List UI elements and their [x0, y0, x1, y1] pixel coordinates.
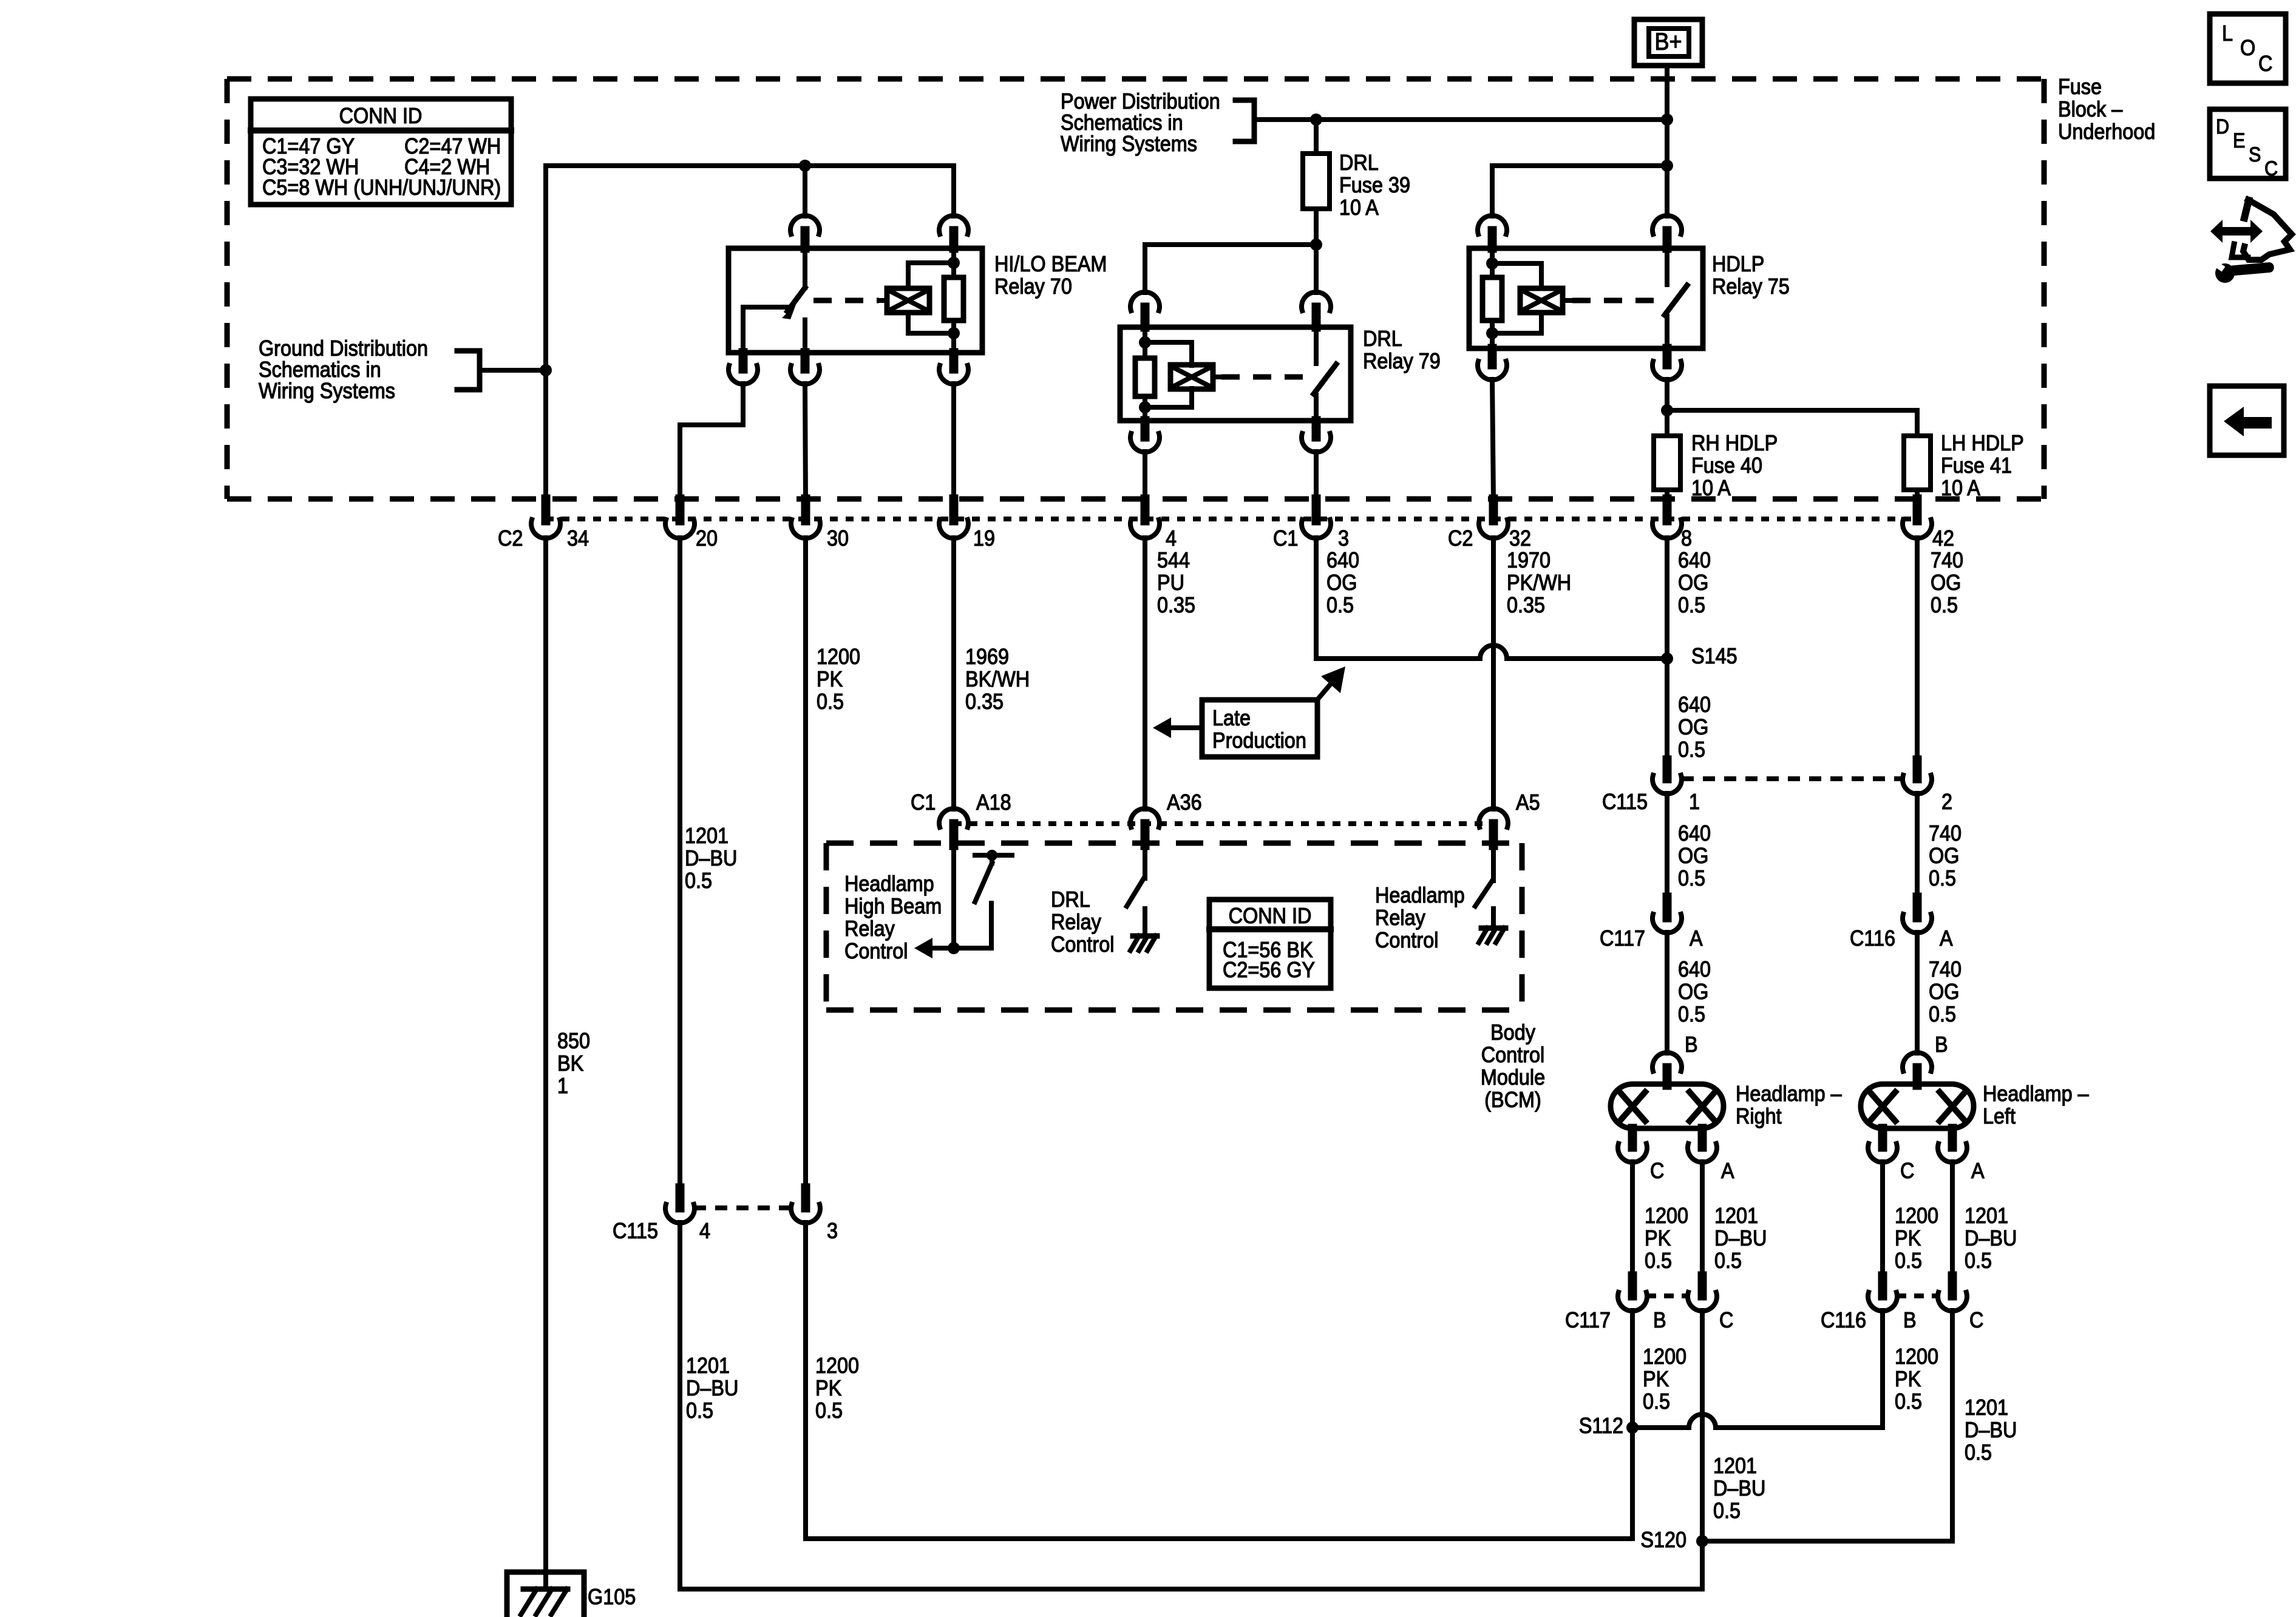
svg-text:1200: 1200: [815, 1354, 859, 1378]
svg-text:1: 1: [1689, 790, 1700, 814]
connector row: BCM (dotted line): [954, 821, 1493, 826]
relay 70 coil winding: [813, 263, 954, 333]
wire: 544 PU from pin 4 to BCM A36: [1143, 538, 1147, 809]
svg-text:42: 42: [1932, 526, 1954, 551]
svg-text:Ground Distribution: Ground Distribution: [259, 336, 428, 361]
svg-text:C115: C115: [1602, 790, 1648, 814]
label: 740 OG 0.5 (C116-A): [1929, 957, 1961, 1026]
wire: fuse 41 output to pin 42: [1915, 490, 1920, 499]
connector: fuse block pin 19: [939, 499, 995, 551]
label: 1200 PK 0.5 (right C): [1645, 1204, 1688, 1273]
svg-text:0.5: 0.5: [685, 869, 712, 893]
icon: back button: [2210, 386, 2284, 455]
label: 1200 PK 0.5 (pin 30): [817, 645, 860, 714]
fuse F39 (DRL Fuse 39): [1303, 154, 1330, 209]
svg-text:O: O: [2240, 36, 2255, 60]
svg-text:B: B: [1685, 1032, 1698, 1057]
svg-text:OG: OG: [1929, 844, 1959, 868]
svg-text:Left: Left: [1983, 1104, 2016, 1128]
connector C115-1: [1602, 760, 1700, 814]
svg-text:Body: Body: [1490, 1020, 1536, 1045]
wire: 740 OG C116-A to headlamp left B: [1915, 932, 1920, 1053]
hop: 640 OG crosses 1970 PK/WH: [1480, 645, 1507, 659]
node S112: [1579, 1414, 1639, 1438]
wire: fuse 39 feed: [1314, 120, 1319, 154]
svg-text:0.5: 0.5: [1678, 1002, 1705, 1026]
svg-text:A36: A36: [1167, 790, 1202, 815]
label: Ground Distribution Schematics in Wiring Systems: [259, 336, 428, 403]
svg-text:740: 740: [1931, 548, 1963, 572]
label: 544 PU 0.35: [1157, 548, 1195, 617]
svg-text:PK: PK: [815, 1376, 841, 1400]
svg-text:Relay: Relay: [1375, 906, 1426, 930]
wire: 850 BK from pin 34 to G105: [543, 538, 548, 1572]
svg-text:Relay 79: Relay 79: [1363, 349, 1441, 373]
node: junction power rail / B+ drop: [1661, 114, 1673, 126]
svg-text:OG: OG: [1678, 571, 1708, 595]
connector pin: relay 70 NO contact (bottom center): [790, 353, 820, 384]
label: DRL Fuse 39 10 A: [1339, 151, 1410, 220]
wire: 1200 PK C117-B to S112: [1630, 1310, 1635, 1428]
svg-text:CONN ID: CONN ID: [1229, 904, 1312, 928]
svg-text:0.5: 0.5: [1326, 593, 1354, 617]
svg-text:Control: Control: [1375, 928, 1438, 952]
wire: 1200 PK C115-3 to S112: [806, 1222, 1632, 1539]
connector pin: relay 70 coil feed (top): [939, 215, 968, 248]
label: Headlamp - Right: [1736, 1082, 1843, 1128]
svg-text:PK: PK: [1645, 1226, 1671, 1250]
BCM high beam relay control driver (A18 switch): [914, 846, 1012, 958]
wire: 640 OG C115-1 to C117-A: [1665, 793, 1669, 897]
svg-text:3: 3: [827, 1219, 838, 1243]
label: RH HDLP Fuse 40 10 A: [1691, 431, 1778, 500]
connector pin: relay 75 switch out (bottom right): [1652, 348, 1682, 380]
label: Fuse Block - Underhood: [2058, 75, 2155, 144]
svg-text:0.5: 0.5: [1714, 1249, 1742, 1273]
svg-text:0.5: 0.5: [1713, 1499, 1741, 1523]
connector C117-C: [1688, 1276, 1733, 1332]
svg-text:2: 2: [1941, 790, 1952, 814]
wire: 1200 PK headlamp left C to C116-B: [1880, 1162, 1885, 1276]
svg-text:BK: BK: [557, 1051, 583, 1076]
hop: S112 link crosses 1201 D-BU: [1689, 1414, 1716, 1428]
svg-text:0.35: 0.35: [1507, 593, 1545, 617]
label: LH HDLP Fuse 41 10 A: [1941, 431, 2024, 500]
label: 640 OG 0.5 (C117-A): [1678, 957, 1711, 1026]
svg-text:C116: C116: [1821, 1308, 1866, 1332]
bracket: ground distribution tie to 850 BK wire: [457, 351, 546, 390]
svg-text:0.5: 0.5: [1895, 1389, 1922, 1414]
connector C116-B: [1821, 1276, 1917, 1332]
svg-text:A: A: [1690, 926, 1703, 951]
wire: 640 OG C117-A to headlamp right B: [1665, 932, 1669, 1053]
relay 75 switch: [1665, 248, 1687, 348]
connector pin: relay 79 coil feed (top): [1130, 292, 1160, 327]
svg-text:19: 19: [973, 526, 995, 551]
svg-text:0.5: 0.5: [1929, 866, 1956, 890]
svg-text:C2: C2: [1448, 526, 1473, 551]
svg-text:C2=56 GY: C2=56 GY: [1223, 958, 1315, 982]
svg-text:DRL: DRL: [1339, 151, 1379, 175]
connector C115 pins 1-2 (dashed pair): [1682, 776, 1903, 781]
connector C116 pins B-C (dashed pair): [1897, 1293, 1938, 1298]
svg-text:Fuse 40: Fuse 40: [1691, 453, 1762, 478]
svg-text:S120: S120: [1640, 1528, 1686, 1552]
svg-text:1969: 1969: [965, 645, 1009, 669]
wire: 640 OG from S145 to C115-1: [1665, 659, 1669, 764]
label: Body Control Module (BCM): [1481, 1020, 1545, 1112]
connector: fuse block pin 4: [1130, 499, 1177, 551]
svg-text:C117: C117: [1600, 926, 1645, 951]
svg-text:Schematics in: Schematics in: [1061, 110, 1183, 135]
svg-text:C2: C2: [498, 526, 523, 551]
svg-text:1201: 1201: [1965, 1395, 2008, 1420]
svg-text:D–BU: D–BU: [685, 846, 737, 870]
label: 1200 PK 0.5 (C117-B): [1643, 1344, 1686, 1414]
svg-text:Fuse 41: Fuse 41: [1941, 453, 2012, 478]
svg-text:Block –: Block –: [2058, 97, 2123, 121]
connector A5 (BCM): [1479, 790, 1540, 846]
svg-text:544: 544: [1157, 548, 1190, 572]
connector C116-A: [1850, 897, 1953, 951]
label: DRL Relay Control: [1051, 887, 1114, 957]
wire: relay 70 coil low to pin 19: [951, 384, 956, 499]
svg-text:0.5: 0.5: [1678, 593, 1705, 617]
svg-text:1201: 1201: [1713, 1454, 1757, 1478]
B+ battery feed symbol: [1634, 19, 1702, 66]
svg-text:C1: C1: [911, 790, 936, 815]
label: 640 OG 0.5 (pin 3): [1326, 548, 1359, 617]
svg-text:1201: 1201: [1714, 1204, 1758, 1228]
BCM DRL relay control driver (A36 switch): [1127, 846, 1145, 936]
svg-text:S: S: [2249, 143, 2261, 166]
svg-text:20: 20: [696, 526, 718, 551]
svg-text:OG: OG: [1326, 571, 1357, 595]
connector C116-C: [1938, 1276, 1983, 1332]
wire: 1201 D-BU headlamp left A to C116-C: [1950, 1162, 1955, 1276]
node: junction B+ drop / relay 75 coil branch: [1661, 160, 1673, 172]
wire: rail from 850 BK wire to relay 70 pins: [546, 166, 954, 216]
svg-text:0.5: 0.5: [1965, 1440, 1992, 1465]
svg-text:PK: PK: [1643, 1367, 1669, 1391]
icon: vehicle diagnostic (arrow, car, wrench): [2210, 200, 2292, 283]
svg-text:DRL: DRL: [1363, 327, 1402, 351]
svg-text:Fuse: Fuse: [2058, 75, 2102, 99]
svg-text:PK/WH: PK/WH: [1507, 571, 1571, 595]
wire: branch to LH HDLP fuse 41: [1667, 410, 1917, 436]
svg-text:OG: OG: [1678, 715, 1708, 739]
svg-text:E: E: [2233, 129, 2245, 152]
label: Headlamp - Left: [1983, 1082, 2090, 1128]
connector pin A (headlamp right): [1688, 1128, 1734, 1183]
svg-text:Headlamp: Headlamp: [844, 872, 934, 896]
wire: 640 OG from pin 8 to S145: [1665, 538, 1669, 659]
wire: branch to relay 75 coil: [1492, 166, 1667, 216]
headlamp right (bulbs): [1611, 1084, 1724, 1128]
svg-text:740: 740: [1929, 821, 1961, 846]
wire: drop to relay 70 switch pin: [803, 166, 807, 216]
connector pin C (headlamp left): [1868, 1128, 1914, 1183]
svg-text:Late: Late: [1212, 706, 1251, 730]
svg-text:Headlamp –: Headlamp –: [1983, 1082, 2090, 1106]
svg-text:1201: 1201: [1965, 1204, 2008, 1228]
connector pin A (headlamp left): [1938, 1128, 1985, 1183]
svg-text:Relay 75: Relay 75: [1712, 274, 1790, 299]
svg-text:Wiring Systems: Wiring Systems: [1061, 132, 1197, 156]
svg-text:OG: OG: [1931, 571, 1961, 595]
svg-text:C5=8 WH (UNH/UNJ/UNR): C5=8 WH (UNH/UNJ/UNR): [262, 175, 501, 200]
svg-text:640: 640: [1326, 548, 1359, 572]
connector pin: relay 75 coil feed (top): [1478, 215, 1507, 248]
svg-text:C: C: [2264, 157, 2278, 180]
wire: fuse 39 output: [1314, 209, 1319, 293]
label: HDLP Relay 75: [1712, 252, 1790, 299]
fuse block - underhood (dashed outline): [227, 79, 2044, 499]
svg-text:0.5: 0.5: [817, 690, 844, 714]
chassis ground (A5 driver): [1479, 928, 1506, 943]
svg-text:0.5: 0.5: [1643, 1389, 1670, 1414]
connector: fuse block pin 8: [1652, 499, 1692, 551]
svg-text:1200: 1200: [1895, 1344, 1938, 1369]
chassis ground (A36 driver): [1130, 936, 1157, 951]
svg-text:740: 740: [1929, 957, 1961, 981]
node: junction fuse 39 output / relay 79 coil branch: [1310, 239, 1322, 251]
svg-text:OG: OG: [1678, 844, 1708, 868]
node: junction rail / relay 70 switch feed: [799, 160, 811, 172]
node: junction relay 75 output / LH fuse branch: [1661, 404, 1673, 416]
connector pin B (headlamp right): [1652, 1032, 1698, 1085]
wire: relay 70 NC contact jog to pin 20: [680, 384, 743, 499]
svg-text:B+: B+: [1654, 29, 1682, 55]
svg-text:8: 8: [1681, 526, 1692, 551]
svg-text:CONN ID: CONN ID: [339, 104, 423, 128]
svg-text:10 A: 10 A: [1941, 476, 1980, 500]
svg-text:Control: Control: [844, 939, 908, 963]
svg-text:0.5: 0.5: [1645, 1249, 1672, 1273]
connector: fuse block C2 pin 34: [498, 499, 589, 551]
svg-text:C116: C116: [1850, 926, 1895, 951]
BCM box (dashed): [826, 843, 1522, 1010]
svg-text:640: 640: [1678, 821, 1711, 846]
connector C115-4: [613, 1188, 710, 1243]
wire: 1201 D-BU headlamp right A to C117-C: [1700, 1162, 1705, 1276]
label: 1201 D-BU 0.5 (C115-4): [686, 1354, 738, 1423]
connector pin B (headlamp left): [1903, 1032, 1948, 1085]
wire: relay 79 switch out to pin 3: [1314, 452, 1319, 499]
svg-text:0.5: 0.5: [1929, 1002, 1956, 1026]
svg-text:Right: Right: [1736, 1104, 1782, 1128]
node: junction on 850 BK wire at ground distribution tap: [540, 364, 552, 376]
svg-text:OG: OG: [1929, 980, 1959, 1004]
svg-text:0.35: 0.35: [1157, 593, 1195, 617]
svg-text:C117: C117: [1565, 1308, 1611, 1332]
connector pin: relay 70 switch feed (top): [790, 215, 820, 248]
svg-text:D–BU: D–BU: [1714, 1226, 1767, 1250]
connector C1-A18 (BCM): [911, 790, 1011, 846]
label: 1201 D-BU 0.5 (C117-C): [1713, 1454, 1765, 1523]
svg-text:D–BU: D–BU: [1965, 1226, 2017, 1250]
headlamp left (bulbs): [1861, 1084, 1974, 1128]
wire: 740 OG from pin 42 to C115-2: [1915, 538, 1920, 764]
svg-text:D: D: [2216, 115, 2229, 138]
svg-text:C1: C1: [1273, 526, 1298, 551]
label: 740 OG 0.5 (C115-2): [1929, 821, 1961, 890]
svg-text:S145: S145: [1691, 644, 1737, 668]
svg-text:Power Distribution: Power Distribution: [1061, 89, 1220, 114]
label: 1200 PK 0.5 (C116-B): [1895, 1344, 1938, 1414]
wire: S120 to C116-C (1201 D-BU): [1702, 1310, 1952, 1541]
relay K75 box (HDLP Relay 75): [1469, 248, 1703, 348]
connector C115-3: [791, 1188, 838, 1243]
wire: 1201 D-BU C117-C to S120: [1700, 1310, 1705, 1541]
svg-text:Fuse 39: Fuse 39: [1339, 173, 1410, 197]
svg-text:1200: 1200: [817, 645, 860, 669]
wire: branch to relay 79 coil: [1145, 245, 1316, 293]
connector: fuse block C1 pin 3: [1273, 499, 1349, 551]
CONN ID table (BCM): [1209, 900, 1331, 988]
svg-text:1200: 1200: [1643, 1344, 1686, 1369]
svg-text:OG: OG: [1678, 980, 1708, 1004]
svg-text:(BCM): (BCM): [1484, 1088, 1541, 1112]
svg-text:B: B: [1903, 1308, 1917, 1332]
svg-text:Relay: Relay: [1051, 910, 1102, 934]
svg-text:1200: 1200: [1895, 1204, 1938, 1228]
wire: 640 OG from pin 3 to S145: [1316, 538, 1667, 659]
icon: LOC button: [2210, 14, 2286, 83]
svg-text:C: C: [1969, 1308, 1983, 1332]
svg-text:640: 640: [1678, 957, 1711, 981]
node S145: [1661, 644, 1737, 668]
svg-text:Module: Module: [1481, 1065, 1545, 1090]
svg-text:A: A: [1940, 926, 1953, 951]
label: 1970 PK/WH 0.35: [1507, 548, 1571, 617]
CONN ID table (fuse block connectors): [251, 99, 511, 205]
node S120: [1640, 1528, 1708, 1552]
svg-text:G105: G105: [588, 1585, 636, 1609]
svg-text:10 A: 10 A: [1339, 195, 1379, 220]
relay 79 coil winding: [1145, 342, 1305, 407]
label: Power Distribution Schematics in Wiring Systems: [1061, 89, 1220, 156]
svg-text:High Beam: High Beam: [844, 894, 942, 918]
svg-text:PK: PK: [1895, 1226, 1921, 1250]
label: 640 OG 0.5 (pin 8): [1678, 548, 1711, 617]
label: HI/LO BEAM Relay 70: [994, 252, 1107, 299]
label: 1200 PK 0.5 (left C): [1895, 1204, 1938, 1273]
relay 70 switch: [743, 248, 805, 353]
wire: 1969 BK/WH from pin 19 to BCM A18: [951, 538, 956, 809]
label: 1201 D-BU 0.5 (right A): [1714, 1204, 1767, 1273]
svg-text:PK: PK: [817, 667, 843, 691]
svg-text:850: 850: [557, 1029, 590, 1053]
ground G105: [507, 1572, 584, 1615]
svg-text:1201: 1201: [685, 824, 729, 848]
svg-text:Production: Production: [1212, 728, 1306, 753]
svg-text:HDLP: HDLP: [1712, 252, 1764, 276]
label: 1201 D-BU 0.5 (pin 20): [685, 824, 737, 893]
connector: fuse block pin 42: [1903, 499, 1954, 551]
svg-text:640: 640: [1678, 548, 1711, 572]
svg-text:0.5: 0.5: [686, 1398, 713, 1423]
fuse F41 (LH HDLP Fuse 41): [1904, 436, 1931, 490]
svg-text:C: C: [1900, 1159, 1914, 1183]
label: 640 OG 0.5 (C115-1): [1678, 821, 1711, 890]
connector: fuse block pin 30: [791, 499, 849, 551]
svg-text:PK: PK: [1895, 1367, 1921, 1391]
svg-text:RH HDLP: RH HDLP: [1691, 431, 1778, 455]
svg-text:1201: 1201: [686, 1354, 730, 1378]
svg-text:PU: PU: [1157, 571, 1184, 595]
svg-text:Headlamp –: Headlamp –: [1736, 1082, 1843, 1106]
svg-text:34: 34: [567, 526, 589, 551]
fuse F40 (RH HDLP Fuse 40): [1654, 436, 1680, 490]
svg-text:HI/LO BEAM: HI/LO BEAM: [994, 252, 1107, 276]
svg-text:0.5: 0.5: [1678, 866, 1705, 890]
svg-text:Relay: Relay: [844, 917, 895, 941]
wire: S112 to C116-B (1200 PK): [1632, 1310, 1883, 1428]
connector C117-A: [1600, 897, 1703, 951]
relay 75 coil resistor: [1483, 248, 1502, 348]
connector C117-B: [1565, 1276, 1666, 1332]
svg-text:30: 30: [827, 526, 849, 551]
connector pin: relay 79 coil low (bottom left): [1130, 421, 1160, 452]
wire: relay 75 switch out to headlamp fuses: [1665, 379, 1669, 436]
svg-text:640: 640: [1678, 693, 1711, 717]
svg-text:Relay 70: Relay 70: [994, 274, 1072, 299]
svg-text:D–BU: D–BU: [1713, 1476, 1765, 1500]
svg-text:0.5: 0.5: [1678, 737, 1705, 762]
wire: B+ drop to HDLP relay 75 switch: [1665, 66, 1669, 216]
wire: B+ power rail to fuse 39 and relay 75: [1254, 117, 1667, 122]
wire: 1200 PK headlamp right C to C117-B: [1630, 1162, 1635, 1276]
label: 1200 PK 0.5 (C115-3): [815, 1354, 859, 1423]
bracket: power distribution feed: [1235, 100, 1254, 141]
connector pin: relay 75 switch feed (top): [1652, 215, 1682, 248]
label: 850 BK 1: [557, 1029, 590, 1098]
svg-text:DRL: DRL: [1051, 887, 1090, 912]
wire: 1970 PK/WH from pin 32 to BCM A5: [1491, 538, 1496, 809]
svg-text:L: L: [2222, 21, 2233, 46]
svg-text:A5: A5: [1516, 790, 1540, 815]
wire: relay 75 coil low to pin 32: [1492, 379, 1493, 499]
svg-text:C: C: [2258, 52, 2272, 76]
connector pin: relay 79 switch feed (top): [1302, 292, 1331, 327]
svg-text:Wiring Systems: Wiring Systems: [259, 379, 395, 403]
connector pin C (headlamp right): [1618, 1128, 1664, 1183]
svg-text:D–BU: D–BU: [1965, 1418, 2017, 1442]
svg-text:Headlamp: Headlamp: [1375, 883, 1465, 907]
svg-text:Control: Control: [1481, 1043, 1544, 1067]
svg-text:0.35: 0.35: [965, 690, 1004, 714]
svg-text:4: 4: [699, 1219, 710, 1243]
svg-text:1: 1: [557, 1074, 568, 1098]
svg-text:A18: A18: [976, 790, 1011, 815]
label: 640 OG 0.5 (below S145): [1678, 693, 1711, 762]
svg-text:C: C: [1719, 1308, 1733, 1332]
connector C115-2: [1903, 760, 1952, 814]
svg-text:B: B: [1935, 1032, 1948, 1057]
svg-text:C115: C115: [613, 1219, 658, 1243]
relay K79 box (DRL Relay 79): [1120, 327, 1351, 421]
connector pin: relay 70 NC contact (bottom left): [729, 353, 758, 384]
annotation: Late Production box: [1153, 666, 1345, 757]
relay 79 coil resistor: [1135, 327, 1155, 421]
wire: 1200 PK from pin 30 to C115-3: [803, 538, 808, 1188]
svg-text:BK/WH: BK/WH: [965, 667, 1030, 691]
connector A36 (BCM): [1130, 790, 1202, 846]
connector C117 pins B-C (dashed pair): [1646, 1293, 1688, 1298]
svg-text:4: 4: [1166, 526, 1177, 551]
svg-text:0.5: 0.5: [1965, 1249, 1992, 1273]
